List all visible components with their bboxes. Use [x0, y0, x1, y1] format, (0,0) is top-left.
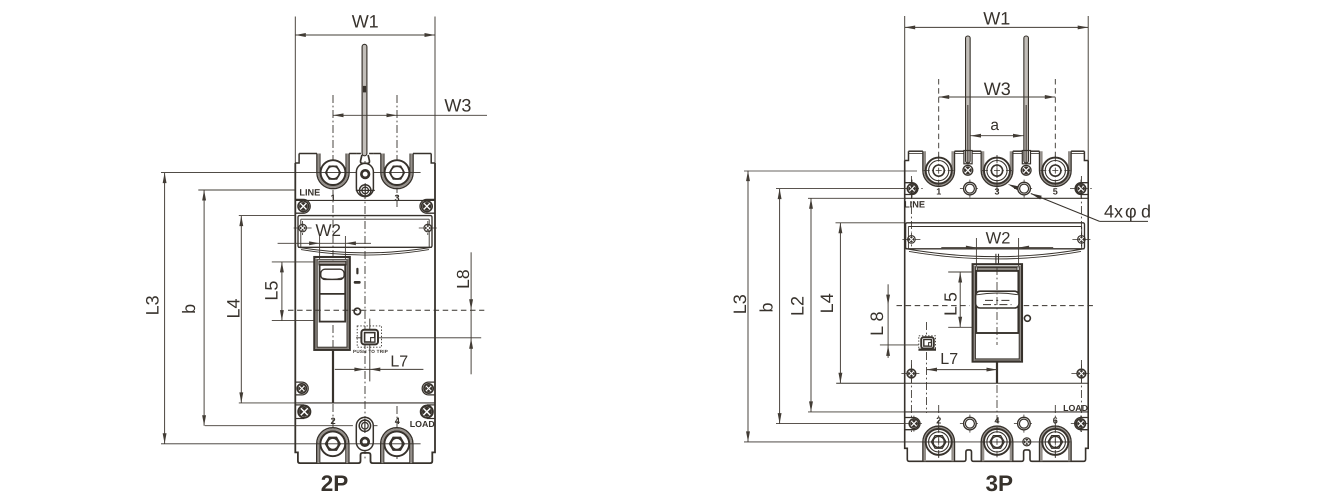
svg-text:L3: L3: [730, 294, 750, 314]
svg-text:L7: L7: [940, 351, 958, 368]
svg-text:LINE: LINE: [904, 200, 925, 210]
svg-text:2P: 2P: [321, 471, 349, 496]
svg-text:W2: W2: [315, 221, 341, 240]
svg-text:L4: L4: [817, 293, 837, 313]
svg-text:b: b: [757, 302, 777, 312]
svg-text:2: 2: [330, 416, 335, 426]
svg-text:W2: W2: [986, 229, 1011, 247]
svg-text:1: 1: [936, 186, 941, 196]
svg-text:L7: L7: [390, 354, 408, 371]
svg-text:φ: φ: [1125, 201, 1137, 221]
svg-text:W3: W3: [444, 95, 471, 115]
svg-text:a: a: [990, 117, 999, 134]
svg-text:L8: L8: [453, 269, 473, 288]
svg-text:W1: W1: [352, 12, 379, 32]
svg-text:LOAD: LOAD: [1063, 403, 1088, 413]
svg-text:3P: 3P: [986, 471, 1014, 496]
svg-text:L4: L4: [223, 298, 243, 318]
svg-text:3: 3: [394, 193, 399, 203]
svg-text:W1: W1: [983, 9, 1010, 29]
svg-text:b: b: [179, 304, 199, 314]
svg-text:W3: W3: [984, 79, 1011, 99]
svg-text:4x: 4x: [1104, 201, 1123, 221]
svg-text:5: 5: [1053, 186, 1058, 196]
svg-text:4: 4: [994, 416, 999, 426]
svg-text:L5: L5: [262, 281, 282, 301]
svg-text:L 8: L 8: [867, 312, 887, 336]
svg-text:PUSH TO TRIP: PUSH TO TRIP: [353, 349, 388, 354]
svg-text:d: d: [1141, 201, 1151, 221]
svg-text:L2: L2: [787, 296, 807, 316]
svg-text:1: 1: [330, 193, 335, 203]
svg-text:LINE: LINE: [299, 188, 320, 198]
svg-text:4: 4: [395, 416, 401, 426]
svg-text:L3: L3: [142, 295, 162, 315]
svg-text:L 5: L 5: [940, 292, 960, 316]
svg-text:LOAD: LOAD: [410, 419, 435, 429]
